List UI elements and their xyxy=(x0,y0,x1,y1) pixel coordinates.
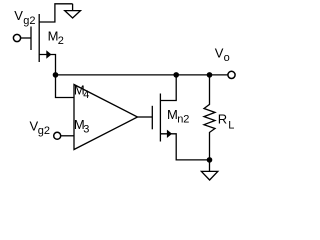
svg-text:V: V xyxy=(215,46,224,61)
svg-text:L: L xyxy=(228,120,234,132)
op-amp U1 (M3/M4 amplifier triangle) xyxy=(74,85,138,150)
wire node A down to amp input M4 xyxy=(56,75,75,98)
svg-text:R: R xyxy=(218,112,227,127)
svg-text:n2: n2 xyxy=(177,114,189,126)
svg-text:o: o xyxy=(224,52,230,64)
wire Mn2 source to bottom node xyxy=(160,134,209,160)
resistor RL xyxy=(204,75,215,160)
node junction dot at Mn2 drain xyxy=(173,72,179,78)
wire Vg2 to amp input M3 xyxy=(61,135,74,137)
svg-text:g2: g2 xyxy=(23,15,35,27)
transistor Mn2 xyxy=(151,106,153,130)
wire M2 drain to ground xyxy=(39,4,72,22)
terminal Vg2 (amp input M3) xyxy=(54,132,61,139)
node junction dot at RL top xyxy=(207,72,213,78)
svg-text:g2: g2 xyxy=(38,125,50,137)
arrow M2 source xyxy=(46,50,51,58)
node A junction dot xyxy=(53,72,59,78)
svg-text:V: V xyxy=(14,8,23,23)
transistor M2 xyxy=(30,27,32,51)
wire top rail node A to Vo xyxy=(56,74,228,76)
ground (top, M2 drain) xyxy=(72,4,74,11)
svg-text:2: 2 xyxy=(58,35,64,47)
ground (bottom) xyxy=(209,160,211,172)
terminal Vg2 (gate of M2) xyxy=(13,34,20,41)
node junction dot bottom xyxy=(207,157,213,163)
wire amp output to Mn2 gate xyxy=(138,116,153,118)
wire Mn2 drain to rail xyxy=(160,75,176,101)
svg-text:3: 3 xyxy=(83,123,89,135)
arrow Mn2 source xyxy=(167,130,172,138)
wire M2 source to node A xyxy=(39,55,55,75)
terminal Vo xyxy=(228,71,235,78)
wire gate of M2 xyxy=(21,37,31,39)
svg-text:4: 4 xyxy=(83,89,89,101)
